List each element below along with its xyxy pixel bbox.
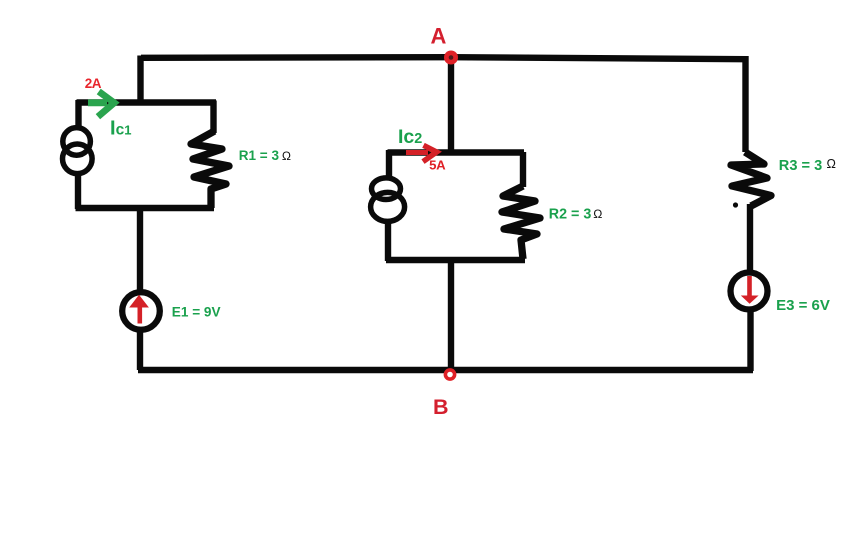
current source Ic2 bbox=[371, 178, 405, 222]
arrow Ic1 (green) bbox=[88, 94, 114, 115]
wire middle loop right upper bbox=[520, 152, 526, 187]
svg-text:Ω: Ω bbox=[593, 207, 602, 221]
svg-text:Ic2: Ic2 bbox=[398, 126, 422, 148]
node B bbox=[445, 370, 454, 379]
voltage source E3 bbox=[731, 273, 768, 310]
svg-text:Ω: Ω bbox=[827, 157, 836, 171]
E1 arrow (red up) bbox=[129, 295, 149, 324]
arrow Ic2 (red) bbox=[406, 145, 437, 161]
resistor R3 bbox=[731, 152, 771, 206]
wire middle loop left upper bbox=[386, 150, 392, 179]
current source Ic1 bbox=[63, 128, 93, 174]
wire bottom rail B bbox=[138, 367, 753, 373]
wire middle loop top bbox=[388, 149, 525, 155]
wire left loop top bbox=[77, 99, 217, 105]
svg-text:R3 = 3: R3 = 3 bbox=[779, 158, 822, 174]
wire top-left drop bbox=[137, 56, 143, 105]
svg-text:A: A bbox=[431, 24, 447, 49]
wire left loop left lower bbox=[75, 174, 81, 210]
svg-text:Ic1: Ic1 bbox=[110, 118, 131, 140]
svg-text:5A: 5A bbox=[429, 158, 446, 173]
svg-text:Ω: Ω bbox=[282, 149, 291, 163]
E3 arrow (red down) bbox=[741, 276, 759, 304]
wire left loop left upper bbox=[75, 100, 81, 128]
svg-text:R2 = 3: R2 = 3 bbox=[549, 207, 592, 223]
wire right drop from top rail bbox=[742, 56, 748, 152]
wire E3 to bottom rail bbox=[747, 311, 753, 371]
wire top rail A bbox=[141, 57, 746, 59]
wire middle loop left lower bbox=[385, 220, 391, 262]
wire left loop bottom bbox=[76, 205, 215, 211]
svg-text:B: B bbox=[433, 395, 449, 419]
wire left loop to E1 bbox=[137, 206, 143, 291]
svg-text:E1 = 9V: E1 = 9V bbox=[172, 305, 221, 320]
wire node A drop bbox=[448, 56, 454, 153]
svg-text:E3 = 6V: E3 = 6V bbox=[776, 297, 830, 314]
voltage source E1 bbox=[122, 292, 160, 330]
wire middle loop to node B bbox=[448, 259, 454, 373]
wire middle loop bottom bbox=[386, 257, 525, 263]
svg-text:R1 = 3: R1 = 3 bbox=[239, 148, 280, 163]
resistor R1 bbox=[191, 131, 229, 208]
svg-text:2A: 2A bbox=[85, 76, 102, 91]
wire left loop right bbox=[210, 101, 216, 134]
wire E1 to bottom rail bbox=[137, 331, 143, 370]
node A bbox=[444, 51, 458, 65]
resistor R2 bbox=[502, 186, 540, 259]
wire R3 to E3 bbox=[747, 204, 753, 271]
stray dot bbox=[733, 202, 738, 207]
